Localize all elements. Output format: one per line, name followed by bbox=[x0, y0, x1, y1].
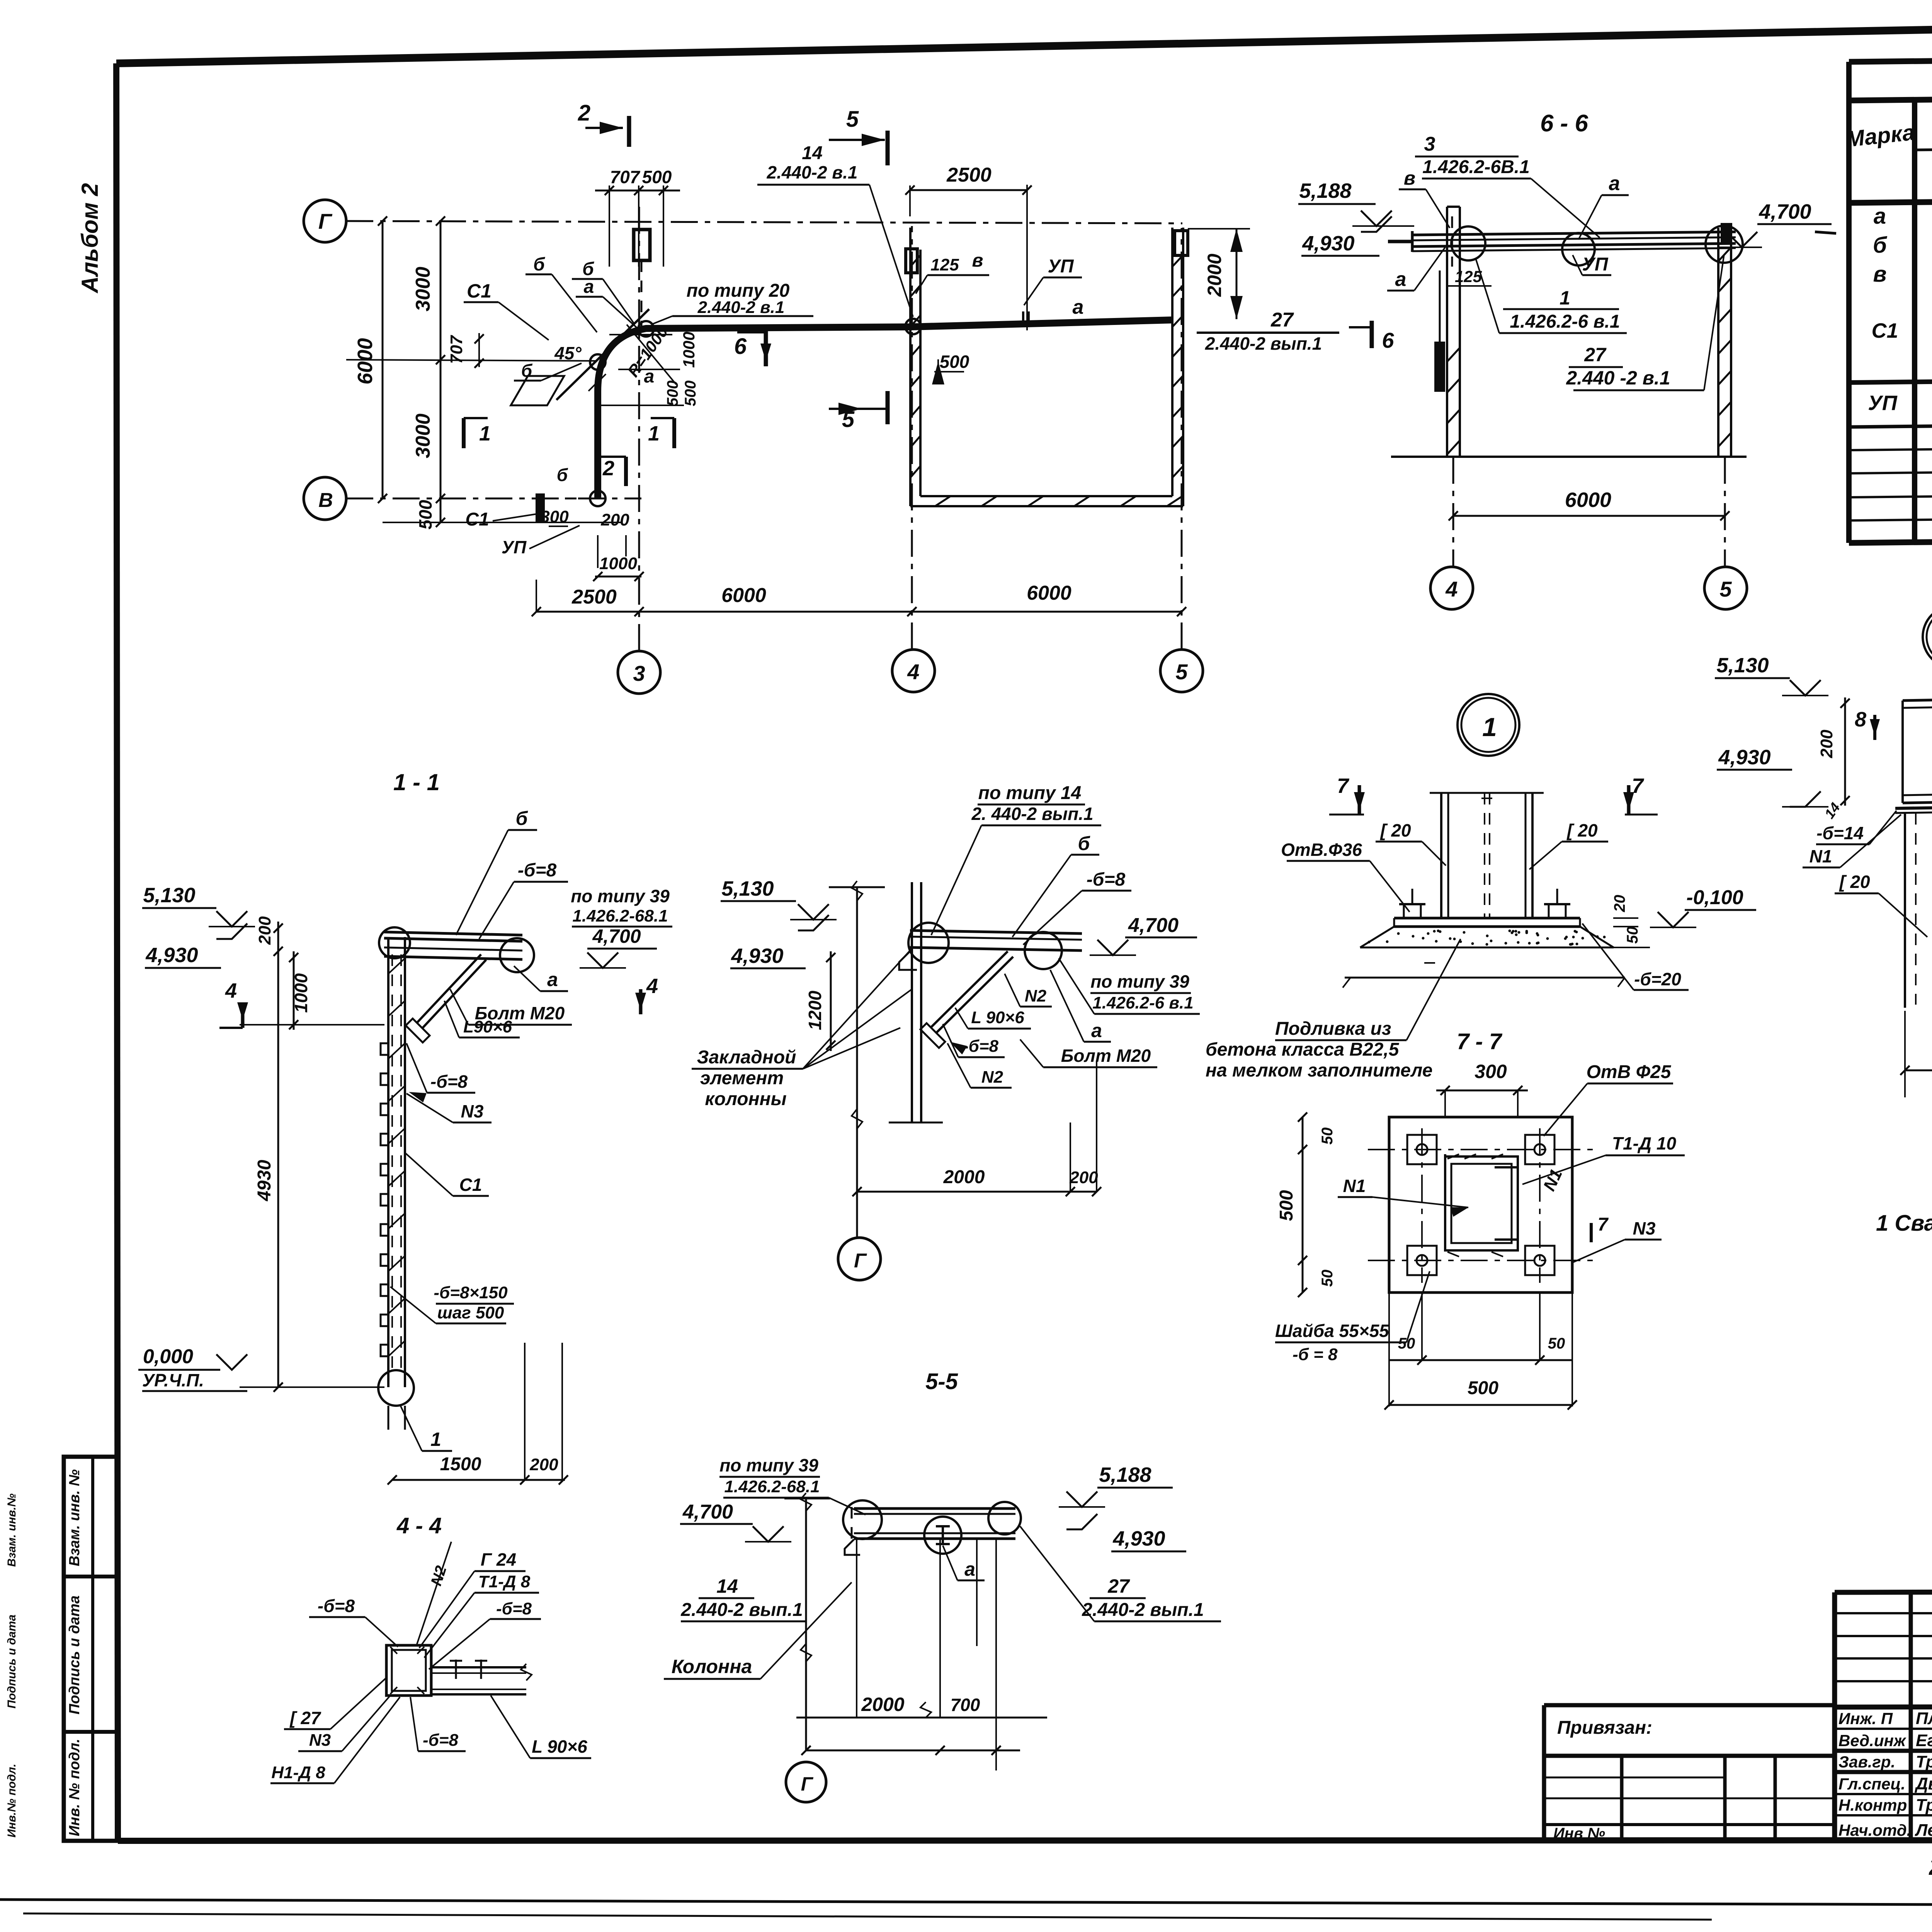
svg-text:50: 50 bbox=[1319, 1270, 1336, 1287]
svg-text:по типу 14: по типу 14 bbox=[978, 783, 1082, 803]
svg-text:2. 440-2 вып.1: 2. 440-2 вып.1 bbox=[971, 804, 1093, 824]
svg-text:1 Сварку выполнять: 1 Сварку выполнять bbox=[1876, 1211, 1932, 1236]
svg-text:а: а bbox=[964, 1558, 975, 1580]
svg-text:-б=8×150: -б=8×150 bbox=[434, 1283, 508, 1302]
svg-text:Подпись и дата: Подпись и дата bbox=[5, 1614, 18, 1708]
svg-text:4,930: 4,930 bbox=[731, 944, 783, 968]
svg-text:27: 27 bbox=[1270, 309, 1294, 331]
svg-text:а: а bbox=[1609, 172, 1620, 195]
svg-text:1: 1 bbox=[430, 1429, 441, 1450]
svg-text:700: 700 bbox=[951, 1695, 980, 1715]
svg-text:3: 3 bbox=[1424, 133, 1435, 155]
svg-text:С1: С1 bbox=[1871, 319, 1898, 342]
svg-text:1.426.2-6 в.1: 1.426.2-6 в.1 bbox=[1510, 311, 1620, 332]
svg-text:27: 27 bbox=[1107, 1575, 1130, 1597]
svg-text:2.440-2 вып.1: 2.440-2 вып.1 bbox=[1082, 1600, 1204, 1620]
svg-text:4: 4 bbox=[646, 975, 658, 998]
svg-text:в: в bbox=[1404, 167, 1415, 189]
svg-text:2500: 2500 bbox=[946, 164, 992, 186]
svg-text:6000: 6000 bbox=[1565, 488, 1611, 512]
svg-text:Трубникова: Трубникова bbox=[1916, 1752, 1932, 1771]
svg-text:Т1-Д 10: Т1-Д 10 bbox=[1612, 1133, 1677, 1153]
svg-text:2.440-2 в.1: 2.440-2 в.1 bbox=[767, 162, 858, 182]
svg-text:а: а bbox=[584, 277, 594, 297]
svg-text:200: 200 bbox=[1817, 730, 1836, 759]
svg-text:5-5: 5-5 bbox=[925, 1369, 958, 1394]
svg-text:Гл.спец.: Гл.спец. bbox=[1838, 1775, 1905, 1793]
svg-text:4,700: 4,700 bbox=[1128, 914, 1179, 937]
svg-text:а: а bbox=[1073, 296, 1084, 318]
svg-text:0,000: 0,000 bbox=[143, 1345, 193, 1368]
svg-text:1.426.2-68.1: 1.426.2-68.1 bbox=[724, 1477, 820, 1496]
svg-text:по типу 39: по типу 39 bbox=[719, 1455, 818, 1475]
svg-text:6000: 6000 bbox=[1027, 582, 1071, 604]
svg-text:500: 500 bbox=[682, 381, 699, 406]
svg-text:3000: 3000 bbox=[412, 413, 434, 458]
svg-text:-0,100: -0,100 bbox=[1686, 886, 1743, 909]
svg-text:500: 500 bbox=[415, 500, 435, 529]
svg-text:5: 5 bbox=[1719, 577, 1732, 601]
svg-text:4,930: 4,930 bbox=[1302, 232, 1354, 255]
svg-text:6: 6 bbox=[1382, 328, 1394, 352]
svg-text:УП: УП bbox=[1582, 254, 1609, 275]
svg-text:200: 200 bbox=[600, 510, 629, 529]
svg-text:Т1-Д 8: Т1-Д 8 bbox=[478, 1572, 531, 1591]
svg-text:125: 125 bbox=[930, 255, 959, 274]
svg-text:N3: N3 bbox=[309, 1731, 331, 1750]
svg-text:б: б bbox=[521, 361, 533, 381]
svg-text:5,130: 5,130 bbox=[143, 884, 195, 907]
svg-text:[ 20: [ 20 bbox=[1566, 820, 1598, 840]
svg-text:ОтВ.Ф36: ОтВ.Ф36 bbox=[1281, 840, 1362, 860]
svg-text:4,700: 4,700 bbox=[682, 1501, 733, 1523]
svg-text:б: б bbox=[557, 465, 568, 485]
svg-text:[ 27: [ 27 bbox=[289, 1708, 321, 1728]
svg-text:1: 1 bbox=[479, 422, 491, 445]
svg-text:ОтВ Ф25: ОтВ Ф25 bbox=[1587, 1062, 1672, 1082]
svg-text:200: 200 bbox=[529, 1455, 558, 1474]
svg-text:Н.контр: Н.контр bbox=[1838, 1796, 1907, 1814]
svg-text:Инв. № подл.: Инв. № подл. bbox=[66, 1739, 83, 1837]
svg-text:500: 500 bbox=[664, 381, 681, 406]
svg-text:УР.Ч.П.: УР.Ч.П. bbox=[142, 1370, 204, 1390]
svg-text:Колонна: Колонна bbox=[672, 1656, 752, 1677]
svg-text:1000: 1000 bbox=[599, 554, 637, 573]
svg-text:14: 14 bbox=[716, 1575, 738, 1597]
svg-text:L 90×6: L 90×6 bbox=[971, 1008, 1024, 1027]
svg-text:4,930: 4,930 bbox=[1112, 1527, 1165, 1550]
svg-text:500: 500 bbox=[1276, 1190, 1297, 1221]
svg-text:300: 300 bbox=[1475, 1061, 1507, 1082]
svg-text:14: 14 bbox=[802, 143, 822, 163]
svg-text:УП: УП bbox=[1048, 256, 1074, 277]
svg-text:2: 2 bbox=[602, 457, 614, 480]
svg-text:[ 20: [ 20 bbox=[1379, 820, 1411, 840]
svg-text:4,700: 4,700 bbox=[1759, 200, 1811, 223]
svg-text:125: 125 bbox=[1455, 267, 1482, 286]
svg-text:2.440-2 вып.1: 2.440-2 вып.1 bbox=[680, 1600, 803, 1620]
svg-text:50: 50 bbox=[1319, 1128, 1336, 1145]
svg-text:Нач.отд.: Нач.отд. bbox=[1838, 1821, 1911, 1839]
svg-text:а: а bbox=[1874, 204, 1886, 229]
svg-text:2.440-2 вып.1: 2.440-2 вып.1 bbox=[1205, 333, 1322, 354]
svg-text:а: а bbox=[644, 366, 655, 387]
svg-text:3000: 3000 bbox=[412, 267, 434, 311]
svg-text:4,930: 4,930 bbox=[1718, 746, 1770, 769]
svg-text:[ 20: [ 20 bbox=[1838, 872, 1870, 892]
svg-text:Г: Г bbox=[318, 209, 333, 233]
svg-text:б: б bbox=[1078, 833, 1091, 854]
svg-text:Г: Г bbox=[801, 1773, 814, 1795]
svg-text:-б=8: -б=8 bbox=[518, 860, 557, 881]
svg-text:50: 50 bbox=[1624, 927, 1641, 944]
svg-text:1000: 1000 bbox=[680, 332, 698, 367]
svg-text:на мелком заполнителе: на мелком заполнителе bbox=[1206, 1060, 1432, 1081]
svg-text:-б=8: -б=8 bbox=[423, 1731, 459, 1750]
svg-text:2: 2 bbox=[578, 100, 590, 126]
svg-text:4 - 4: 4 - 4 bbox=[396, 1513, 442, 1538]
svg-text:6 - 6: 6 - 6 bbox=[1540, 110, 1588, 137]
svg-text:1 - 1: 1 - 1 bbox=[393, 769, 440, 795]
svg-text:а: а bbox=[547, 969, 558, 990]
svg-text:УП: УП bbox=[1868, 391, 1898, 415]
svg-text:6000: 6000 bbox=[354, 338, 377, 384]
svg-text:L 90×6: L 90×6 bbox=[532, 1736, 587, 1757]
svg-text:5,130: 5,130 bbox=[721, 877, 774, 900]
svg-text:Инв №: Инв № bbox=[1553, 1825, 1605, 1842]
svg-text:6: 6 bbox=[734, 334, 747, 359]
svg-text:Вед.инж: Вед.инж bbox=[1838, 1731, 1906, 1750]
svg-text:В: В bbox=[318, 489, 333, 512]
svg-text:25388- 02: 25388- 02 bbox=[1929, 1854, 1932, 1880]
svg-text:Трубникова: Трубникова bbox=[1916, 1796, 1932, 1815]
svg-text:Взам. инв.№: Взам. инв.№ bbox=[5, 1493, 18, 1567]
svg-text:-б=20: -б=20 bbox=[1634, 969, 1681, 989]
svg-text:4: 4 bbox=[907, 660, 919, 684]
svg-text:-б=8: -б=8 bbox=[430, 1071, 468, 1092]
svg-text:50: 50 bbox=[1548, 1335, 1565, 1352]
svg-text:Зав.гр.: Зав.гр. bbox=[1838, 1753, 1895, 1771]
svg-text:Н1-Д 8: Н1-Д 8 bbox=[271, 1763, 325, 1782]
svg-text:а: а bbox=[1395, 268, 1406, 291]
svg-text:7 - 7: 7 - 7 bbox=[1457, 1029, 1503, 1054]
svg-text:1.426.2-6 в.1: 1.426.2-6 в.1 bbox=[1092, 993, 1193, 1012]
svg-text:Альбом 2: Альбом 2 bbox=[77, 183, 103, 294]
svg-text:200: 200 bbox=[255, 916, 274, 945]
svg-text:N1: N1 bbox=[1810, 846, 1832, 866]
svg-text:Подпись и дата: Подпись и дата bbox=[66, 1595, 83, 1714]
svg-text:4: 4 bbox=[1445, 577, 1458, 601]
svg-text:707: 707 bbox=[610, 167, 641, 187]
svg-text:2500: 2500 bbox=[571, 586, 617, 608]
svg-text:27: 27 bbox=[1584, 344, 1607, 366]
svg-text:С1: С1 bbox=[465, 509, 489, 530]
svg-text:Шайба 55×55: Шайба 55×55 bbox=[1275, 1321, 1389, 1341]
svg-text:-б=8: -б=8 bbox=[1087, 869, 1126, 890]
svg-text:1.426.2-68.1: 1.426.2-68.1 bbox=[572, 906, 668, 925]
svg-text:1: 1 bbox=[648, 422, 660, 445]
svg-text:-б=14: -б=14 bbox=[1816, 823, 1864, 843]
svg-text:5: 5 bbox=[846, 107, 859, 132]
svg-text:1200: 1200 bbox=[805, 990, 825, 1030]
svg-text:2000: 2000 bbox=[861, 1694, 904, 1715]
svg-text:Инж. П: Инж. П bbox=[1838, 1709, 1893, 1728]
svg-text:-б=8: -б=8 bbox=[496, 1599, 532, 1618]
svg-text:4,930: 4,930 bbox=[145, 944, 198, 967]
svg-text:по типу 39: по типу 39 bbox=[1090, 971, 1189, 992]
svg-text:колонны: колонны bbox=[705, 1089, 786, 1109]
svg-text:N3: N3 bbox=[1633, 1218, 1656, 1238]
svg-text:Подливка из: Подливка из bbox=[1275, 1019, 1391, 1039]
svg-text:8: 8 bbox=[1855, 708, 1866, 731]
svg-text:1: 1 bbox=[1560, 287, 1570, 309]
svg-text:б: б bbox=[533, 254, 545, 275]
svg-text:3: 3 bbox=[633, 661, 645, 685]
svg-text:7: 7 bbox=[1598, 1214, 1609, 1235]
svg-text:Г: Г bbox=[854, 1250, 867, 1272]
svg-text:в: в bbox=[1873, 262, 1886, 287]
svg-text:-б = 8: -б = 8 bbox=[1293, 1345, 1338, 1364]
svg-text:5,130: 5,130 bbox=[1716, 654, 1769, 677]
svg-text:Болт М20: Болт М20 bbox=[1061, 1046, 1151, 1066]
svg-text:б: б bbox=[516, 808, 529, 829]
svg-text:2.440-2 в.1: 2.440-2 в.1 bbox=[697, 298, 785, 317]
svg-text:200: 200 bbox=[1069, 1168, 1098, 1187]
svg-text:-б=8: -б=8 bbox=[318, 1596, 355, 1616]
svg-text:Егоров: Егоров bbox=[1916, 1731, 1932, 1750]
svg-text:Взам. инв. №: Взам. инв. № bbox=[66, 1469, 83, 1566]
svg-text:Г 24: Г 24 bbox=[481, 1549, 516, 1570]
svg-text:2000: 2000 bbox=[1204, 253, 1225, 297]
svg-text:Привязан:: Привязан: bbox=[1557, 1718, 1652, 1738]
svg-text:в: в bbox=[972, 250, 983, 271]
svg-text:500: 500 bbox=[642, 167, 672, 187]
svg-text:Плотникова: Плотникова bbox=[1916, 1709, 1932, 1728]
svg-text:Дыба: Дыба bbox=[1914, 1774, 1932, 1793]
svg-text:Инв.№ подл.: Инв.№ подл. bbox=[5, 1764, 18, 1837]
svg-text:2.440 -2 в.1: 2.440 -2 в.1 bbox=[1566, 367, 1670, 389]
svg-text:4930: 4930 bbox=[254, 1160, 275, 1201]
svg-text:N2: N2 bbox=[1025, 986, 1047, 1005]
svg-text:50: 50 bbox=[1398, 1335, 1415, 1352]
svg-text:Лебедев: Лебедев bbox=[1915, 1821, 1932, 1840]
svg-text:500: 500 bbox=[1468, 1378, 1498, 1398]
svg-text:N1: N1 bbox=[1343, 1176, 1366, 1196]
svg-text:500: 500 bbox=[940, 352, 969, 372]
svg-text:7: 7 bbox=[1632, 774, 1645, 798]
svg-text:а: а bbox=[1091, 1020, 1102, 1041]
svg-text:5,188: 5,188 bbox=[1099, 1463, 1151, 1486]
svg-text:1.426.2-6В.1: 1.426.2-6В.1 bbox=[1422, 157, 1530, 177]
svg-text:1500: 1500 bbox=[440, 1454, 481, 1475]
svg-text:N3: N3 bbox=[461, 1101, 484, 1121]
svg-text:УП: УП bbox=[502, 537, 527, 557]
svg-text:бетона класса В22,5: бетона класса В22,5 bbox=[1206, 1039, 1400, 1060]
svg-text:б: б bbox=[1873, 233, 1888, 258]
svg-text:5: 5 bbox=[1175, 660, 1188, 684]
svg-text:Закладной: Закладной bbox=[697, 1047, 796, 1068]
svg-text:L90×6: L90×6 bbox=[463, 1017, 512, 1036]
svg-text:45°: 45° bbox=[554, 343, 582, 363]
svg-text:-б=8: -б=8 bbox=[963, 1037, 999, 1056]
svg-text:С1: С1 bbox=[467, 280, 492, 302]
svg-text:шаг 500: шаг 500 bbox=[437, 1303, 504, 1322]
svg-text:С1: С1 bbox=[459, 1175, 482, 1195]
svg-text:6000: 6000 bbox=[721, 584, 766, 607]
svg-text:5,188: 5,188 bbox=[1299, 179, 1351, 202]
svg-text:20: 20 bbox=[1611, 895, 1628, 913]
svg-text:4,700: 4,700 bbox=[592, 925, 641, 947]
svg-text:2000: 2000 bbox=[943, 1167, 985, 1187]
svg-text:707: 707 bbox=[447, 335, 466, 364]
svg-text:300: 300 bbox=[540, 507, 569, 526]
svg-text:1: 1 bbox=[1482, 713, 1497, 742]
svg-text:по типу 39: по типу 39 bbox=[571, 886, 670, 906]
svg-text:4: 4 bbox=[225, 979, 237, 1002]
svg-text:7: 7 bbox=[1337, 774, 1350, 798]
svg-text:N2: N2 bbox=[981, 1068, 1003, 1087]
svg-text:элемент: элемент bbox=[700, 1068, 784, 1088]
